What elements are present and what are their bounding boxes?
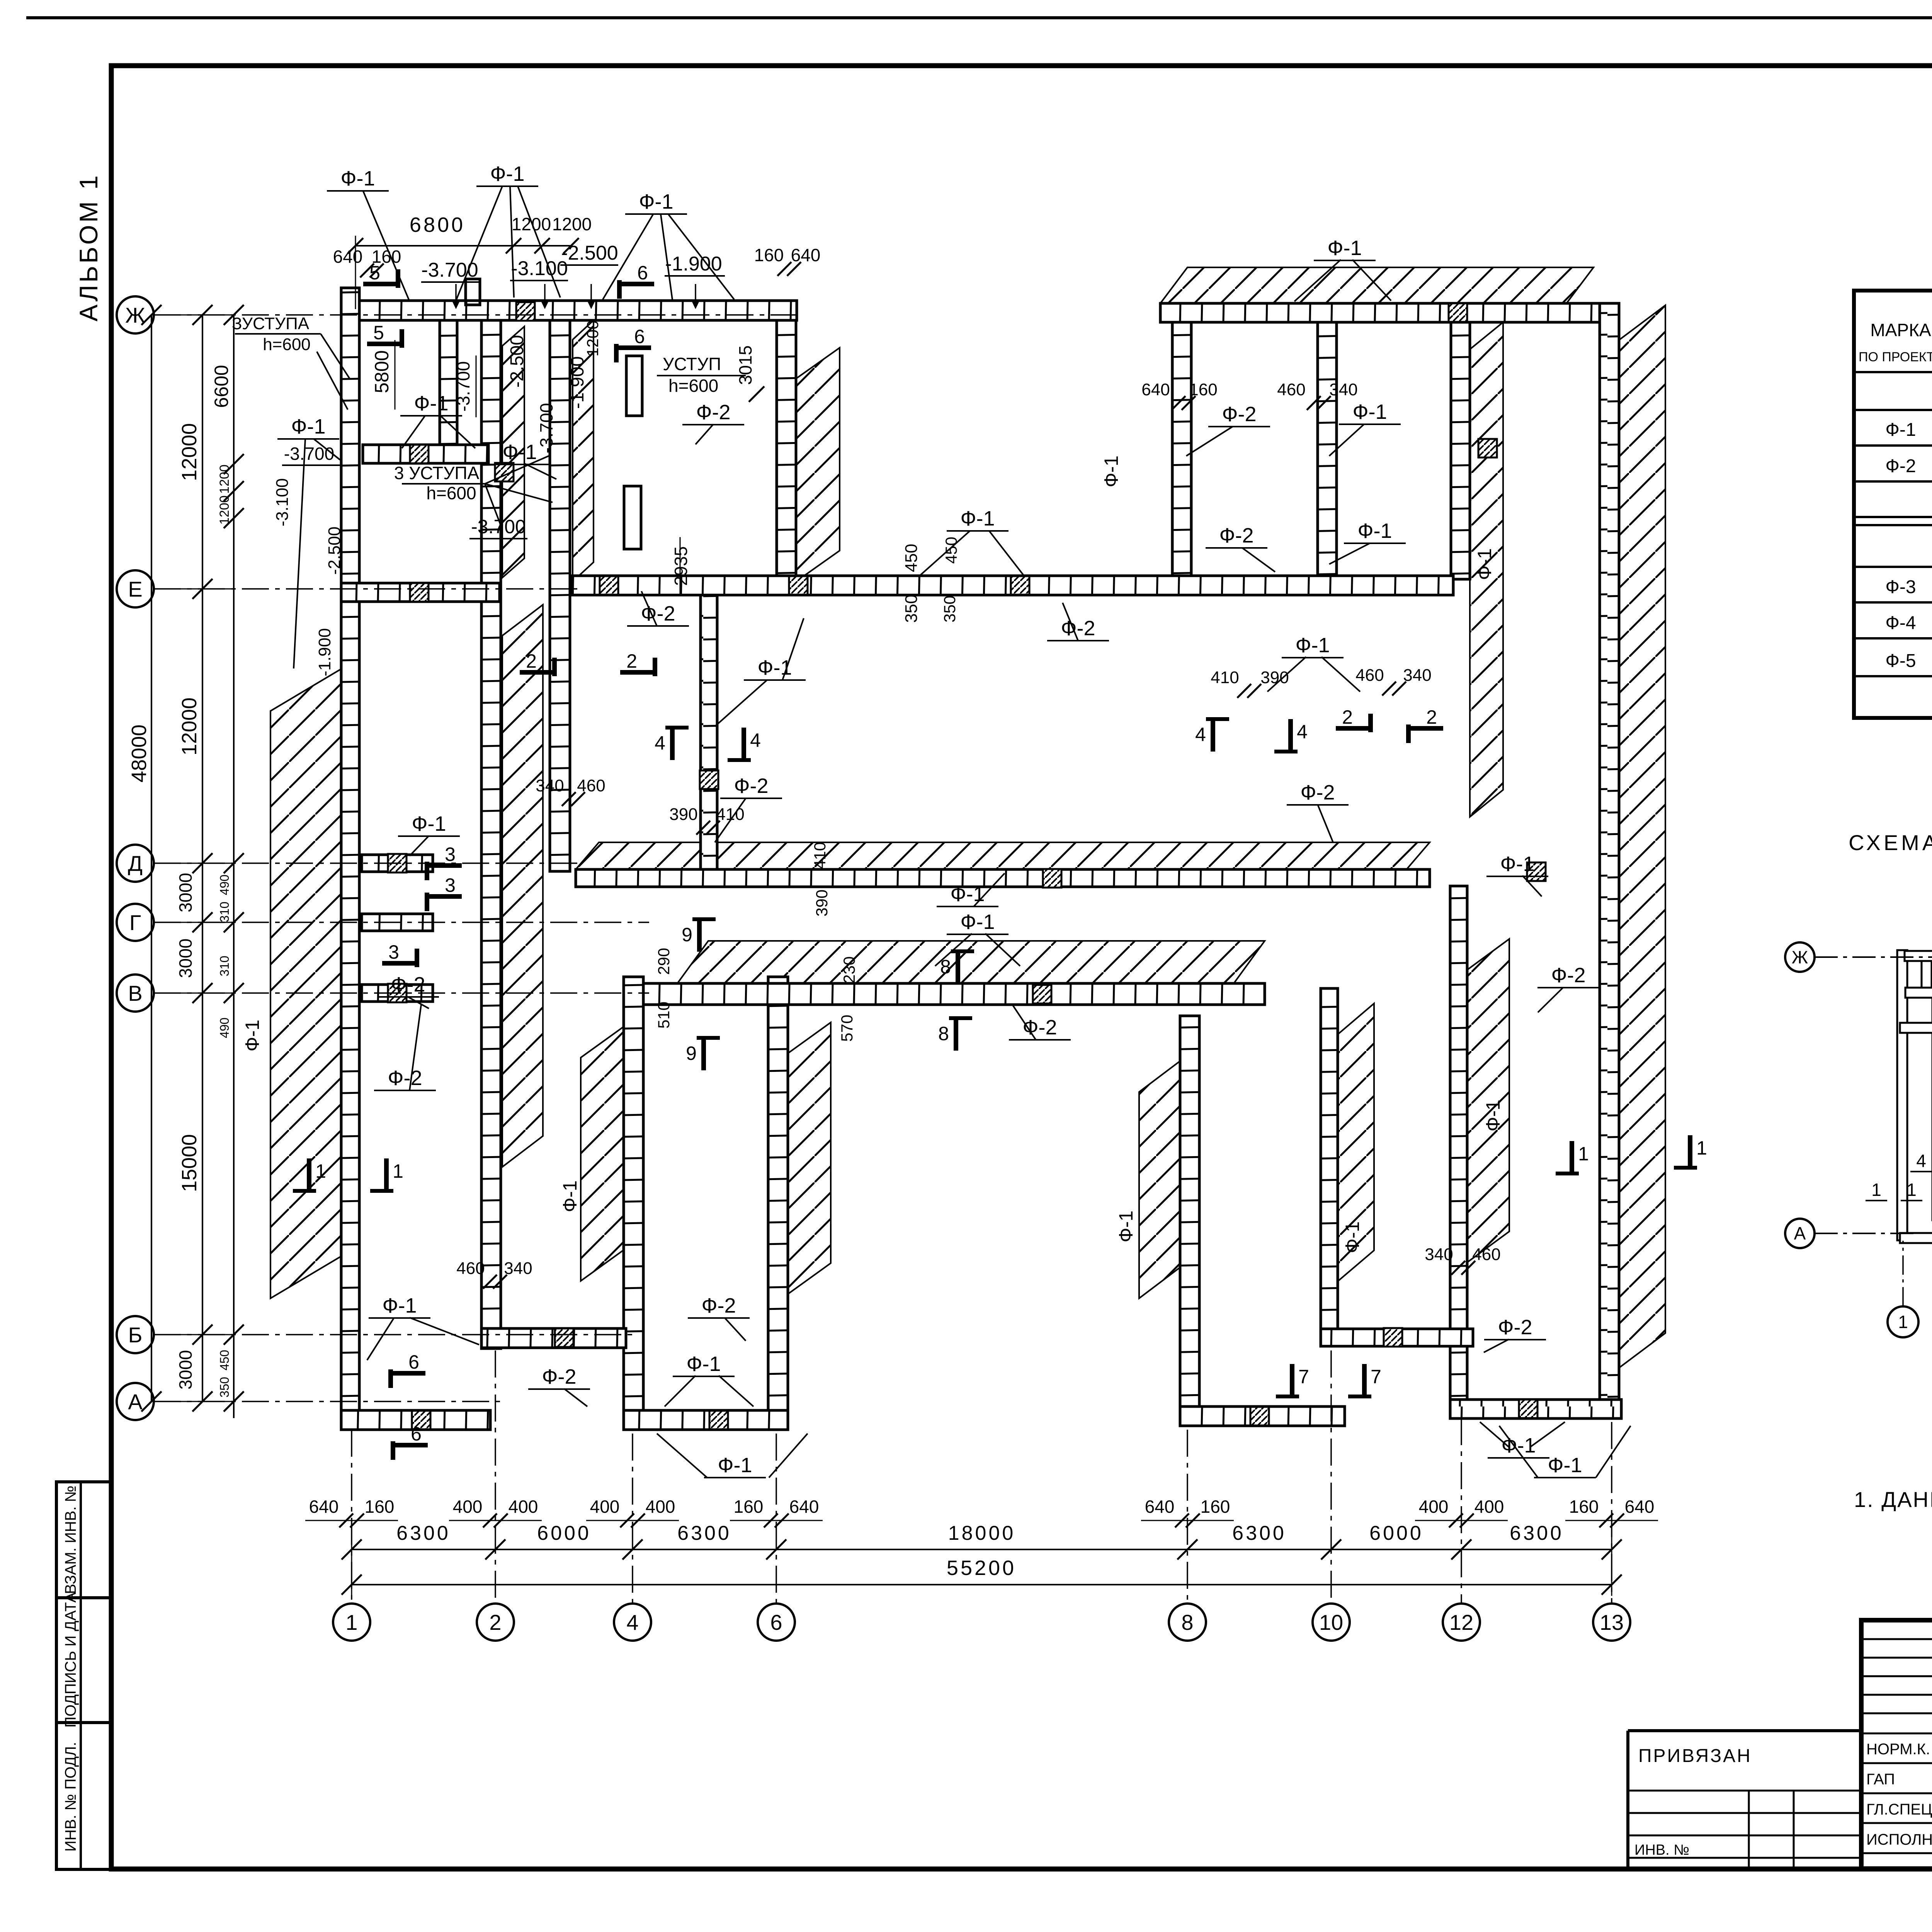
axis circle А	[117, 1383, 154, 1420]
svg-text:ГЛ.СПЕЦ.: ГЛ.СПЕЦ.	[1866, 1801, 1932, 1818]
lower plan annotations	[382, 961, 417, 966]
title block left annex	[1628, 1729, 1861, 1732]
svg-text:6000: 6000	[537, 1522, 591, 1544]
svg-text:640: 640	[1145, 1497, 1175, 1517]
svg-text:1: 1	[1578, 1143, 1589, 1165]
title block name rows	[1861, 1762, 1932, 1764]
svg-text:Ф-1: Ф-1	[340, 167, 375, 190]
svg-text:9: 9	[682, 924, 692, 946]
svg-text:Ф-1: Ф-1	[1482, 1100, 1504, 1131]
svg-text:-2.500: -2.500	[507, 335, 527, 388]
svg-text:640: 640	[309, 1497, 339, 1517]
svg-text:Ф-1: Ф-1	[291, 415, 325, 438]
wall right wing interior 3 (vertical)	[1451, 322, 1470, 579]
title block upper thin rows	[1861, 1638, 1932, 1640]
svg-text:Ф-1: Ф-1	[241, 1020, 263, 1051]
wall axis 10 (vertical)	[1321, 988, 1338, 1346]
wall axis V (horizontal)	[643, 983, 1265, 1005]
svg-text:ИСПОЛН.: ИСПОЛН.	[1866, 1831, 1932, 1848]
svg-text:Ф-1: Ф-1	[950, 883, 985, 906]
right lower annotations	[1290, 1364, 1294, 1396]
wall axis A seg 1-2 (horizontal)	[341, 1410, 490, 1430]
axis circle 10	[1313, 1604, 1350, 1641]
axis circle 13	[1593, 1604, 1630, 1641]
svg-text:340: 340	[1425, 1245, 1453, 1264]
svg-text:3 УСТУПА: 3 УСТУПА	[394, 463, 480, 483]
svg-text:460: 460	[577, 776, 605, 795]
wall axis B left segment (horizontal)	[481, 1328, 626, 1348]
section marks 5 and 6 top	[363, 282, 398, 286]
wall axis A seg 12-13 (horizontal)	[1450, 1400, 1621, 1418]
svg-text:Ф-1: Ф-1	[686, 1352, 721, 1376]
svg-text:Ф-4: Ф-4	[1885, 613, 1916, 633]
svg-text:450: 450	[942, 537, 960, 564]
svg-text:5: 5	[373, 322, 384, 344]
svg-text:6300: 6300	[677, 1522, 731, 1544]
schema building walls	[1897, 950, 1907, 1240]
wall axis 12 (vertical)	[1450, 886, 1467, 1415]
svg-text:570: 570	[838, 1015, 856, 1042]
svg-text:Ф-1: Ф-1	[1352, 400, 1387, 423]
wall mid between E and D (vertical)	[701, 594, 717, 871]
hatch band left of stair-left wall	[581, 1027, 624, 1281]
svg-text:450: 450	[902, 544, 921, 572]
junction squares	[410, 445, 429, 463]
top dimension 6800 line	[355, 245, 571, 247]
svg-text:1: 1	[315, 1160, 326, 1182]
svg-text:6300: 6300	[396, 1522, 451, 1544]
svg-text:640: 640	[1141, 380, 1170, 399]
svg-text:3: 3	[445, 874, 456, 896]
axis Ж line	[154, 314, 802, 316]
hatch band right of axis 13	[1619, 305, 1665, 1368]
svg-text:-3.100: -3.100	[273, 478, 292, 527]
svg-text:h=600: h=600	[263, 335, 311, 354]
axis circle Е	[117, 570, 154, 607]
svg-text:390: 390	[669, 805, 697, 824]
axis circle Г	[117, 904, 154, 941]
svg-text:3000: 3000	[175, 873, 196, 912]
axis Е line	[154, 588, 578, 590]
svg-text:-1.900: -1.900	[315, 628, 334, 677]
svg-text:350: 350	[218, 1377, 231, 1397]
axis circle В	[117, 975, 154, 1012]
spec table grid	[1854, 291, 1932, 718]
svg-text:Ф-2: Ф-2	[701, 1294, 736, 1317]
svg-text:160: 160	[1569, 1497, 1599, 1517]
svg-text:Ф-1: Ф-1	[1500, 852, 1534, 876]
hatch band right of stair-right wall	[788, 1022, 831, 1294]
axis circle 6	[758, 1604, 795, 1641]
svg-text:Ф-1: Ф-1	[1295, 634, 1330, 657]
svg-text:6600: 6600	[211, 365, 232, 408]
svg-text:2: 2	[1342, 706, 1353, 728]
svg-text:Ж: Ж	[1792, 947, 1808, 967]
svg-text:Ф-1: Ф-1	[382, 1294, 417, 1317]
schema axis circle Zh	[1785, 942, 1815, 972]
axis А line	[154, 1401, 502, 1402]
svg-text:460: 460	[1277, 380, 1305, 399]
svg-text:8: 8	[1181, 1610, 1193, 1634]
svg-text:2935: 2935	[671, 546, 691, 586]
svg-text:350: 350	[902, 594, 921, 622]
wall axis A seg at 8 (horizontal)	[1180, 1406, 1345, 1426]
bottom dimension chain segments	[352, 1549, 1612, 1550]
axis circle 12	[1443, 1604, 1480, 1641]
svg-text:18000: 18000	[948, 1522, 1016, 1544]
hatch band left of axis 1	[270, 668, 342, 1298]
svg-text:Ф-2: Ф-2	[1219, 524, 1253, 547]
wall axis 13 (vertical)	[1600, 303, 1619, 1418]
wall axis D (horizontal)	[576, 869, 1430, 887]
svg-text:Ф-1: Ф-1	[1327, 236, 1362, 260]
axis circle 4	[614, 1604, 651, 1641]
wall axis A stair block (horizontal)	[624, 1410, 788, 1430]
svg-text:6000: 6000	[1369, 1522, 1423, 1544]
svg-text:Ф-1: Ф-1	[960, 910, 995, 934]
hatch band right of axis 10	[1338, 1003, 1374, 1281]
axis В line	[154, 992, 649, 994]
section marks 9 and 8 on V band	[697, 919, 702, 952]
svg-text:4: 4	[1297, 721, 1308, 743]
svg-text:15000: 15000	[178, 1134, 201, 1192]
svg-text:Ф-1: Ф-1	[1115, 1211, 1137, 1242]
svg-text:7: 7	[1371, 1366, 1381, 1388]
svg-text:ИНВ. № ПОДЛ.: ИНВ. № ПОДЛ.	[62, 1742, 79, 1852]
svg-text:1200: 1200	[552, 214, 592, 234]
svg-text:340: 340	[1329, 380, 1357, 399]
left chain connector lines	[154, 315, 234, 316]
svg-text:400: 400	[509, 1497, 538, 1517]
svg-text:390: 390	[813, 889, 831, 917]
svg-text:Ф-2: Ф-2	[1222, 403, 1256, 426]
svg-text:Ф-1: Ф-1	[1342, 1221, 1363, 1253]
svg-text:5: 5	[369, 262, 380, 284]
svg-text:ПО ПРОЕКТУ: ПО ПРОЕКТУ	[1859, 350, 1932, 364]
svg-text:3000: 3000	[175, 1350, 196, 1389]
svg-text:4: 4	[750, 730, 761, 751]
svg-text:h=600: h=600	[668, 376, 718, 396]
svg-text:460: 460	[1355, 666, 1384, 685]
svg-text:510: 510	[655, 1002, 673, 1029]
svg-text:2: 2	[489, 1610, 501, 1634]
svg-text:3: 3	[388, 941, 399, 963]
axis circle 8	[1169, 1604, 1206, 1641]
svg-text:2: 2	[526, 650, 537, 672]
svg-text:Ф-2: Ф-2	[1061, 617, 1095, 640]
svg-text:13: 13	[1600, 1610, 1624, 1634]
left dimension chain 12000/3000	[202, 315, 203, 1401]
svg-text:490: 490	[218, 874, 231, 895]
hatch band above axis D wall	[576, 842, 1430, 869]
svg-text:4: 4	[626, 1610, 638, 1634]
leader arrows from elevations to wall	[455, 284, 457, 299]
svg-text:6: 6	[634, 326, 645, 347]
wall upper-left wing right edge (vertical)	[777, 320, 796, 583]
svg-text:1200: 1200	[217, 464, 232, 494]
wall axis B right segment (horizontal)	[1321, 1329, 1473, 1346]
svg-text:Ф-2: Ф-2	[734, 774, 768, 798]
svg-text:h=600: h=600	[426, 483, 476, 503]
svg-text:400: 400	[646, 1497, 675, 1517]
wall axis E left segment (horizontal)	[341, 583, 500, 602]
pilaster 1	[626, 356, 642, 416]
svg-text:-1.900: -1.900	[567, 356, 588, 409]
svg-text:12000: 12000	[178, 697, 201, 755]
svg-text:6800: 6800	[410, 213, 465, 236]
bottom dimension chain 55200	[352, 1584, 1612, 1585]
svg-text:-3.100: -3.100	[511, 257, 568, 280]
svg-text:-3.700: -3.700	[453, 361, 473, 412]
axis 8 line	[1187, 1430, 1188, 1604]
svg-text:4: 4	[655, 732, 665, 754]
svg-text:Ф-1: Ф-1	[414, 392, 448, 415]
svg-text:1: 1	[1906, 1180, 1917, 1200]
axis circle 2	[477, 1604, 514, 1641]
svg-text:12000: 12000	[178, 423, 201, 481]
svg-text:Ф-2: Ф-2	[641, 602, 675, 625]
wall axis Zh right wing (horizontal)	[1160, 303, 1600, 322]
hatch band right of upper-left wing wall	[796, 348, 840, 582]
svg-text:ГАП: ГАП	[1866, 1771, 1895, 1788]
svg-text:ВЗАМ. ИНВ. №: ВЗАМ. ИНВ. №	[62, 1485, 79, 1594]
svg-text:1200: 1200	[217, 495, 232, 525]
wall right wing interior 2 (vertical)	[1318, 322, 1337, 579]
page outer border top	[26, 16, 1932, 19]
svg-text:Ф-1: Ф-1	[1548, 1454, 1582, 1477]
svg-text:7: 7	[1298, 1366, 1309, 1388]
wall stair right (vertical)	[768, 977, 788, 1430]
svg-text:Ф-2: Ф-2	[1300, 781, 1335, 804]
svg-text:400: 400	[453, 1497, 483, 1517]
svg-text:Ф-2: Ф-2	[391, 973, 425, 996]
svg-text:Ф-1: Ф-1	[490, 162, 524, 185]
wall axis 8 (vertical)	[1180, 1016, 1199, 1426]
axis circle Б	[117, 1316, 154, 1353]
svg-text:3015: 3015	[735, 345, 755, 385]
svg-text:Ф-1: Ф-1	[559, 1180, 581, 1212]
pilaster 2	[624, 486, 641, 549]
svg-text:Ф-2: Ф-2	[542, 1365, 576, 1388]
svg-text:10: 10	[1319, 1610, 1343, 1634]
svg-text:-2.500: -2.500	[561, 242, 618, 264]
svg-text:410: 410	[1211, 668, 1239, 687]
svg-text:55200: 55200	[947, 1556, 1016, 1580]
svg-text:Ф-1: Ф-1	[1474, 548, 1495, 580]
svg-text:3000: 3000	[175, 939, 196, 978]
svg-text:160: 160	[734, 1497, 764, 1517]
left dimension chain 48000	[151, 315, 152, 1401]
svg-text:Ф-1: Ф-1	[1357, 519, 1392, 543]
svg-text:-3.700: -3.700	[536, 403, 556, 453]
svg-text:6: 6	[411, 1423, 422, 1445]
svg-text:640: 640	[333, 247, 363, 267]
svg-text:Ф-2: Ф-2	[1498, 1316, 1532, 1339]
svg-text:Г: Г	[129, 910, 141, 935]
svg-text:Ф-2: Ф-2	[388, 1066, 422, 1090]
svg-text:9: 9	[686, 1043, 697, 1064]
svg-text:1: 1	[1871, 1180, 1881, 1200]
svg-text:Е: Е	[128, 577, 142, 601]
svg-text:А: А	[128, 1389, 143, 1414]
pilaster 3	[466, 279, 480, 305]
svg-text:Ф-1: Ф-1	[1885, 420, 1916, 440]
svg-text:6300: 6300	[1232, 1522, 1286, 1544]
svg-text:Ф-1: Ф-1	[639, 190, 673, 213]
axis 6 line	[776, 1434, 777, 1604]
svg-text:Ф-1: Ф-1	[412, 812, 446, 835]
svg-text:640: 640	[1625, 1497, 1655, 1517]
wall x1450 Zh-D (vertical)	[550, 320, 570, 871]
svg-text:ПРИВЯЗАН: ПРИВЯЗАН	[1638, 1746, 1752, 1766]
svg-text:290: 290	[655, 948, 673, 975]
svg-text:310: 310	[218, 956, 231, 976]
wall axis Zh left wing (horizontal)	[359, 301, 797, 320]
svg-text:12: 12	[1449, 1610, 1473, 1634]
svg-text:8: 8	[938, 1023, 949, 1044]
svg-text:Ф-1: Ф-1	[718, 1454, 752, 1477]
hatch band x1490 (F-1 strip)	[573, 320, 594, 582]
axis 10 line	[1330, 1350, 1332, 1604]
svg-text:1: 1	[1898, 1312, 1908, 1332]
svg-text:6300: 6300	[1510, 1522, 1564, 1544]
axis 12 line	[1461, 1418, 1462, 1604]
svg-text:490: 490	[218, 1017, 231, 1038]
svg-text:1. ДАННЫЙ ЛИСТ СМОТРЕТЬ СОВМЕС: 1. ДАННЫЙ ЛИСТ СМОТРЕТЬ СОВМЕСТНО С ЛИСТ…	[1854, 1487, 1932, 1512]
svg-text:6: 6	[770, 1610, 782, 1634]
axis Г line	[154, 922, 649, 923]
svg-text:310: 310	[218, 901, 231, 922]
hatch band above axis V wall	[677, 941, 1265, 983]
wall stub at V lower-left wing	[362, 985, 433, 1002]
svg-text:340: 340	[536, 776, 564, 795]
svg-text:-3.700: -3.700	[284, 444, 334, 464]
schema circle 1	[1888, 1306, 1918, 1337]
svg-text:Д: Д	[128, 851, 143, 876]
svg-text:350: 350	[940, 595, 959, 622]
svg-text:Ф-1: Ф-1	[1100, 456, 1122, 487]
svg-text:Ф-5: Ф-5	[1885, 651, 1916, 671]
svg-text:640: 640	[791, 245, 821, 265]
svg-text:230: 230	[840, 956, 858, 983]
svg-text:ИНВ. №: ИНВ. №	[1634, 1842, 1689, 1858]
svg-text:450: 450	[218, 1350, 231, 1370]
svg-text:2: 2	[1426, 706, 1437, 728]
hatch band right of axis 12	[1467, 939, 1509, 1262]
svg-text:4: 4	[1195, 724, 1206, 745]
wall stair left (vertical)	[624, 977, 643, 1430]
svg-text:1200: 1200	[512, 214, 551, 234]
svg-text:НОРМ.К.: НОРМ.К.	[1866, 1741, 1930, 1758]
svg-text:4: 4	[1916, 1151, 1926, 1171]
wall upper-left interior vertical	[440, 320, 457, 445]
axis circle Д	[117, 845, 154, 882]
svg-text:1200: 1200	[583, 320, 602, 356]
svg-text:Ф-1: Ф-1	[960, 507, 995, 530]
svg-text:1: 1	[393, 1160, 403, 1182]
svg-text:-3.700: -3.700	[421, 259, 478, 281]
svg-text:МАРКА: МАРКА	[1870, 320, 1931, 340]
svg-text:-2.500: -2.500	[325, 527, 344, 575]
axis 2 line	[495, 1350, 496, 1604]
svg-text:400: 400	[590, 1497, 620, 1517]
hatch band above top wall right wing	[1160, 267, 1594, 303]
svg-text:ПОДПИСЬ И ДАТА: ПОДПИСЬ И ДАТА	[62, 1592, 79, 1728]
svg-text:160: 160	[1189, 380, 1217, 399]
svg-text:1: 1	[1696, 1137, 1707, 1159]
svg-text:А: А	[1794, 1223, 1806, 1243]
axis Б line	[154, 1334, 634, 1335]
wall stub at G lower-left wing	[362, 914, 433, 931]
svg-text:410: 410	[811, 842, 829, 869]
axis 4 line	[632, 1434, 633, 1604]
svg-text:400: 400	[1419, 1497, 1449, 1517]
svg-text:Ф-2: Ф-2	[1551, 964, 1585, 987]
hatch band right of axis 2 lower	[502, 605, 543, 1167]
svg-text:160: 160	[1201, 1497, 1230, 1517]
hatch band right of V_R3	[1470, 322, 1503, 817]
svg-text:6: 6	[637, 262, 648, 284]
wall axis 1 (vertical)	[341, 288, 359, 1430]
left stamp table	[56, 1482, 111, 1869]
svg-text:Ф-1: Ф-1	[502, 440, 537, 464]
svg-text:160: 160	[365, 1497, 395, 1517]
svg-text:СХЕМА РАСЧЕТНЫХ НАГРУЗОК: СХЕМА РАСЧЕТНЫХ НАГРУЗОК	[1849, 830, 1932, 855]
axis circle Ж	[117, 296, 154, 333]
axis Д line	[154, 862, 580, 864]
axis 13 line	[1611, 1422, 1612, 1604]
svg-text:В: В	[128, 981, 142, 1005]
axis 1 line	[351, 1430, 352, 1604]
svg-text:ЗУСТУПА: ЗУСТУПА	[232, 314, 310, 333]
svg-text:1: 1	[345, 1610, 357, 1634]
left dimension chain 6600	[233, 315, 235, 1418]
svg-text:160: 160	[754, 245, 784, 265]
wall interior upper-left wing (horizontal)	[363, 445, 488, 463]
wall stub at D lower-left wing	[362, 855, 433, 872]
svg-text:340: 340	[504, 1259, 532, 1278]
svg-text:2: 2	[626, 650, 637, 672]
svg-text:460: 460	[1472, 1245, 1500, 1264]
svg-text:АЛЬБОМ 1: АЛЬБОМ 1	[74, 173, 103, 321]
svg-text:УСТУП: УСТУП	[663, 354, 721, 374]
svg-text:460: 460	[456, 1259, 485, 1278]
schema axis circle A	[1785, 1219, 1815, 1248]
svg-text:Ф-2: Ф-2	[696, 401, 730, 424]
svg-text:5800: 5800	[371, 350, 393, 393]
axis circle 1	[333, 1604, 370, 1641]
hatch band right of axis 2 upper	[502, 327, 524, 578]
svg-text:640: 640	[789, 1497, 819, 1517]
wall axis 2 (vertical)	[481, 301, 501, 1349]
wall right wing interior 1 (vertical)	[1172, 322, 1191, 579]
svg-text:Ф-3: Ф-3	[1885, 577, 1916, 597]
svg-text:48000: 48000	[128, 724, 151, 782]
svg-text:3: 3	[445, 844, 456, 865]
svg-text:Ф-2: Ф-2	[1885, 456, 1916, 476]
svg-text:400: 400	[1475, 1497, 1504, 1517]
svg-text:Б: Б	[128, 1323, 143, 1347]
svg-text:340: 340	[1403, 666, 1431, 685]
wall axis E long (horizontal)	[572, 576, 1453, 595]
hatch band left of axis 8	[1139, 1061, 1180, 1298]
svg-text:6: 6	[408, 1351, 419, 1373]
